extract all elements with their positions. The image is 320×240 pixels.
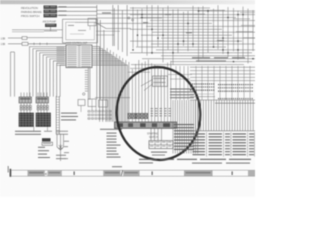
label: prog switch	[21, 14, 40, 18]
pin grid of combination switch (light)	[20, 105, 32, 110]
wire: prog bus to right grid	[97, 17, 162, 19]
wire bundle: U1 left pins turning down (nested corners)	[30, 47, 67, 97]
connector K2 parking brake switch (dark box)	[44, 10, 58, 14]
junction dots in top-right grid	[132, 10, 253, 62]
wire: 1.5B upper feed	[8, 37, 22, 39]
label rows right of J5	[170, 89, 194, 99]
junction star splice	[59, 144, 63, 149]
tab cell 10 (gray end)	[248, 170, 255, 176]
wire bundle: top-right vertical harness	[133, 5, 253, 65]
label: parking brake switch	[21, 10, 42, 14]
contact marks inside main switch	[68, 25, 86, 34]
tiny labels far left of column	[64, 141, 69, 159]
wire: ASCD pump stub	[44, 27, 57, 31]
legend table (bottom right)	[193, 132, 255, 156]
label: ASCD pump	[43, 21, 57, 24]
splice connector on lower feed	[22, 42, 28, 45]
wire pair: left feed verticals	[11, 52, 15, 97]
wire: bus top line right	[215, 102, 255, 104]
connector K1 revolution sensor (dark box)	[44, 5, 58, 9]
wire: bottom collector to fan	[95, 97, 130, 99]
wire: left feeder horizontals below labels	[12, 30, 63, 32]
short bus stubs far top right	[233, 13, 255, 38]
wire: revolution sensor to harness	[57, 6, 97, 8]
scan noise overlay (decor)	[0, 0, 1, 1]
wire: mid feeder horizontals x96-140	[96, 23, 133, 35]
wire: inter-stack verticals going down	[34, 127, 48, 132]
tab cell 8 (filled gray)	[184, 170, 212, 176]
terminal row block A (dotted)	[190, 83, 214, 90]
pin number stacks above strip J10	[151, 108, 172, 116]
wire bundle: right page-edge harness verticals	[196, 100, 254, 131]
wire: brake bus to right grid	[97, 13, 205, 15]
wire: left edge tick to bar	[7, 166, 9, 173]
highlight ellipse (inspection loop)	[111, 62, 205, 164]
splice ring S1	[83, 93, 85, 95]
pin dot grid below sender boxes	[88, 111, 111, 120]
tab separator slash	[121, 170, 122, 175]
label: revolution sensor	[21, 6, 38, 10]
connector K4 ASCD pump (dark box)	[45, 24, 57, 27]
tab cell 2 (filled gray)	[28, 170, 45, 176]
connector J5 small (inside ellipse top)	[153, 76, 168, 86]
label: washer switch right	[56, 155, 66, 159]
wire bundle: fan verticals descending to instrument strip	[107, 48, 171, 122]
tab cell 7 (empty, tick)	[139, 170, 184, 176]
relay box small top-middle	[88, 18, 96, 30]
value label: 1.5B wire gauge (upper)	[1, 37, 6, 40]
connector K3 prog switch (dark box)	[44, 14, 58, 18]
connector block combination switch (light): crosshatched body	[19, 113, 34, 127]
wire: 1.5B lower feed	[8, 43, 22, 45]
tab cell 4 (empty, tick)	[62, 170, 104, 176]
note label: L block models	[151, 152, 167, 156]
labels: int/volume/wiper/washer	[38, 147, 50, 158]
pin grid of combination switch (wiper)	[37, 105, 49, 110]
page tab bar baseline	[10, 170, 255, 176]
label: light switch / combination switch	[15, 131, 41, 135]
terminal text rows over right bundle	[174, 124, 194, 150]
tab cell 5 (filled gray)	[104, 170, 121, 176]
wire: lower feed run to control unit	[28, 43, 66, 45]
pin label column (speedometer feeds)	[107, 133, 121, 158]
terminal row block B (dotted)	[218, 84, 253, 99]
dark cells on strip J10	[117, 123, 170, 127]
wires: wiper cluster junction	[57, 134, 64, 161]
switch SW2: wiper int box (dark)	[42, 138, 51, 141]
wire: separator lines in terminal area	[190, 94, 255, 100]
hatched fuse row inside ellipse	[128, 113, 148, 118]
switch SW2 value box	[42, 142, 53, 145]
pin number column beside feed pair	[85, 70, 88, 91]
wire: bus bottom line right	[190, 130, 255, 132]
wires into combination switch (wiper) main block	[38, 103, 47, 113]
pin labels left of U1	[57, 47, 65, 66]
svg-text:1.5B: 1.5B	[1, 43, 6, 46]
tab cell 9 (empty, tick)	[212, 170, 248, 176]
tab cell 3 (filled gray)	[48, 170, 62, 176]
wire: sensor bus to right grid	[97, 9, 225, 11]
wire pair: U1 bottom feed down	[88, 68, 90, 100]
wire color labels after connectors	[59, 6, 67, 15]
connector pips on 1.5B run	[34, 43, 47, 45]
wire: long vertical trunk x97	[96, 5, 98, 99]
wires: strip J10 to switch table	[151, 128, 162, 140]
note row 2 bottom right	[139, 162, 250, 163]
wire: trunk x100-104 verticals	[100, 20, 104, 99]
splice connector on upper feed	[22, 37, 27, 40]
wire: diagonals joining J5	[141, 80, 153, 91]
label bits scattered in grid	[143, 14, 224, 41]
connector strip J8 vertical ladder	[56, 96, 59, 134]
wire: parking brake switch to harness	[57, 10, 97, 12]
wire: horizontals crossing upper ellipse area	[128, 68, 192, 79]
wire bundle: U1 right pins to vertical bus (nested corners)	[92, 47, 128, 122]
scanner edge strip (decor base)	[0, 0, 255, 4]
tab bar left end tick	[10, 169, 12, 177]
connector strip J10 multi-pin (instrument harness)	[115, 122, 177, 128]
wires: sender boxes to pin grid	[81, 106, 103, 113]
tab separator chevron	[45, 172, 48, 177]
connector block combination switch (wiper): crosshatched body	[36, 113, 51, 127]
wire color labels right of U1	[93, 46, 99, 65]
connector block combination switch (wiper): top header	[36, 93, 49, 104]
tab cell 6 (filled gray)	[123, 170, 139, 176]
label: speedometer electric sensor (3 rows)	[61, 113, 78, 121]
component boundary: ASCD main switch outer box	[63, 19, 98, 43]
svg-text:1.5B: 1.5B	[1, 37, 6, 40]
op-amp U1: ASCD control unit connector block	[66, 45, 92, 68]
label: ASCD control unit U1	[66, 42, 88, 45]
connector cluster: speedometer sender boxes	[78, 99, 108, 107]
wire bundle: harness verticals inside/right of ellipse	[173, 100, 198, 154]
value label: 1.5B wire gauge (lower)	[1, 43, 6, 46]
label row below pin grid	[100, 129, 122, 130]
wire bundle: right grid continuation y66-100	[190, 66, 255, 100]
wire: prog switch to harness	[57, 14, 97, 16]
connector block combination switch (light): top header	[19, 93, 32, 104]
wires into combination switch (light) main block	[21, 103, 30, 113]
wire: upper feed to switch box	[27, 37, 63, 39]
wire: lower bus with diagonal jog	[75, 22, 131, 28]
note row: eng test panel and body harness	[139, 159, 251, 160]
switch SW1: ignition switch position table	[149, 141, 173, 149]
pin ticks right of labels	[44, 131, 68, 135]
wire: vertical risers top-middle	[113, 5, 127, 56]
tiny page label above bar	[112, 166, 122, 167]
value label 1-3B on bus	[102, 11, 111, 14]
splice circles near x130	[128, 17, 134, 21]
wire bundle: top-right horizontal harness	[130, 8, 255, 65]
component boundary: ASCD main switch inner box	[66, 22, 95, 40]
tab cell 1 (empty)	[11, 170, 28, 176]
label: starting switch	[147, 133, 158, 140]
label cluster mid right grid	[192, 57, 245, 61]
wire bundle: center verticals continuing y66-100 left of terminals	[176, 66, 188, 100]
